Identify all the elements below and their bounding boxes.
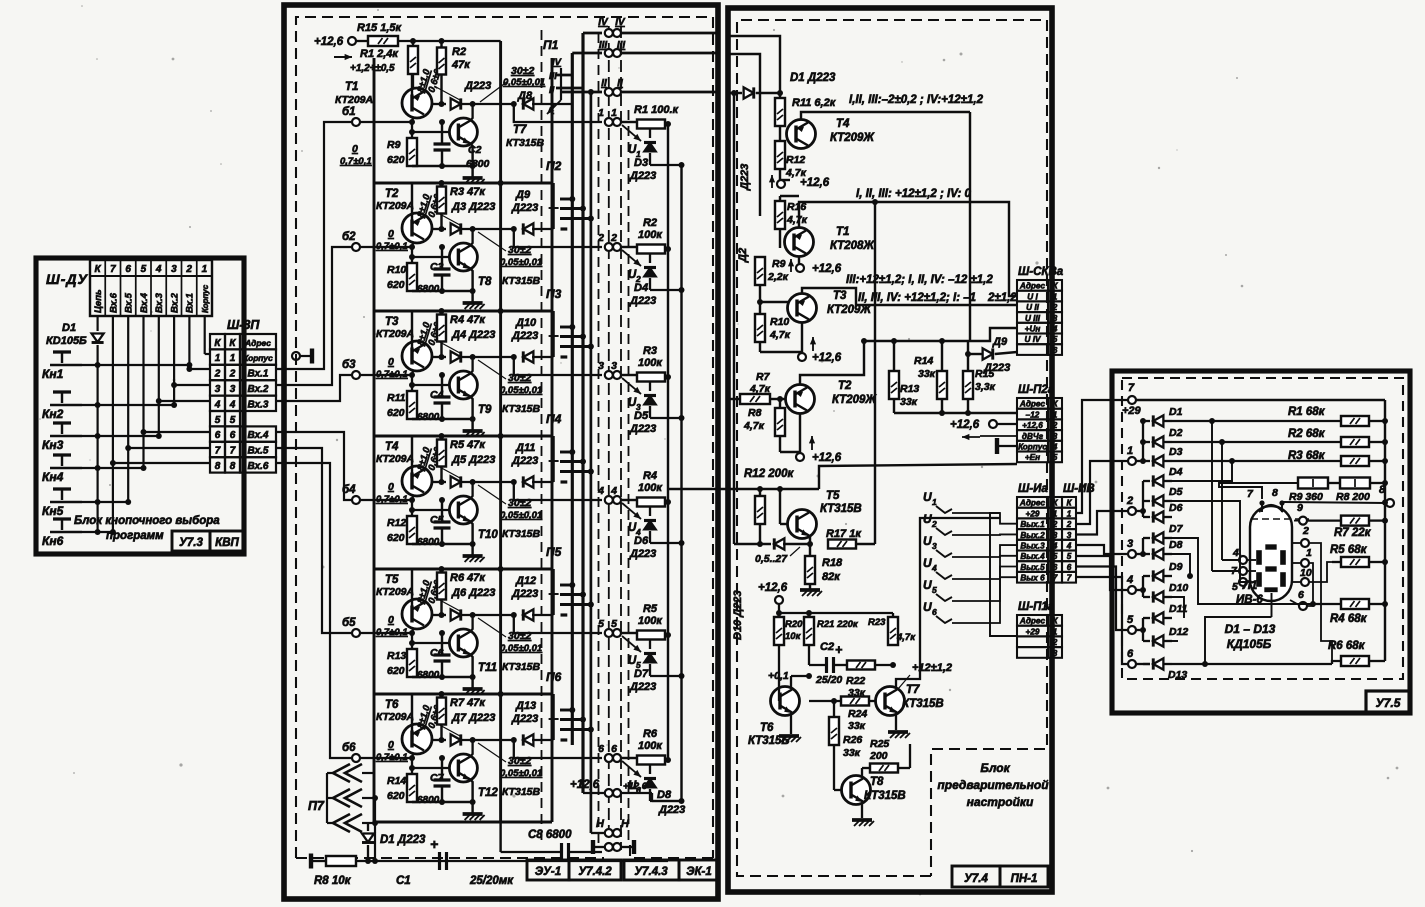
svg-text:R4 47к: R4 47к xyxy=(450,314,486,326)
capacitor C4 6800 xyxy=(441,375,443,397)
push-button Kn3 xyxy=(50,435,82,437)
svg-text:D12: D12 xyxy=(1169,626,1188,638)
wire b6 row xyxy=(360,757,412,759)
EU-1 border bus xyxy=(608,26,610,850)
svg-text:П2: П2 xyxy=(546,159,562,173)
leader line trim xyxy=(478,232,506,251)
svg-text:10к: 10к xyxy=(785,631,802,642)
svg-text:1: 1 xyxy=(1127,445,1133,457)
wiper arrow to U2 xyxy=(622,250,641,266)
wire Вых.1 to terminal 1 xyxy=(1075,461,1128,524)
resistor R3 47к xyxy=(437,187,446,214)
svg-text:Д223: Д223 xyxy=(464,80,491,92)
diode D13 КД105Б xyxy=(1143,663,1150,665)
wire Т8 emitter xyxy=(470,268,473,303)
resistor R8 4,7к xyxy=(775,408,785,436)
wire net Корпус xyxy=(204,316,206,354)
svg-text:620: 620 xyxy=(387,790,405,802)
svg-text:30±2: 30±2 xyxy=(508,372,531,384)
transistor Т2 КТ209А xyxy=(402,213,432,243)
svg-text:П1: П1 xyxy=(543,38,559,52)
mesh wire D8 row xyxy=(1172,554,1190,576)
svg-text:б2: б2 xyxy=(342,231,356,243)
svg-text:Адрес: Адрес xyxy=(244,338,271,348)
svg-text:С8 6800: С8 6800 xyxy=(528,829,572,841)
svg-text:0: 0 xyxy=(388,614,394,626)
svg-text:Вх.1: Вх.1 xyxy=(185,293,196,313)
svg-text:3: 3 xyxy=(1053,531,1058,540)
svg-text:6: 6 xyxy=(230,430,236,441)
transistor Т4 КТ209А xyxy=(402,466,432,496)
coil end tick П2 xyxy=(561,227,568,230)
ground channel 6 xyxy=(463,812,483,816)
wire varicap to bus B xyxy=(650,417,682,419)
svg-text:R12: R12 xyxy=(387,517,406,529)
svg-text:D10 Д223: D10 Д223 xyxy=(732,590,744,640)
transistor T6 КТ315Б xyxy=(771,687,800,716)
svg-text:КТ209А: КТ209А xyxy=(376,586,414,598)
svg-text:U II: U II xyxy=(1026,303,1039,312)
wire net Вх.2 xyxy=(173,316,175,405)
label box U7.4.3 xyxy=(624,860,679,880)
diode D7 КД105Б xyxy=(1143,537,1150,539)
label box U7.4 xyxy=(952,866,1000,887)
wire Vx.5 to b5 xyxy=(276,448,352,633)
svg-text:Корпус: Корпус xyxy=(1018,443,1047,452)
svg-text:Вых.3: Вых.3 xyxy=(1020,542,1045,551)
wire Т1 base up xyxy=(411,74,413,95)
wire R9 left to pin7 xyxy=(1219,483,1298,499)
wire П7 tap bottom xyxy=(362,822,375,824)
coil end tick П6 xyxy=(561,738,568,741)
svg-text:R13: R13 xyxy=(387,650,406,662)
svg-text:1: 1 xyxy=(1053,509,1058,518)
channel 5 top rail wire xyxy=(374,568,552,571)
wire emitter node xyxy=(462,356,516,358)
svg-text:33к: 33к xyxy=(843,747,861,759)
wire Т7 collector xyxy=(470,104,473,121)
resistor R7 47к xyxy=(437,698,446,725)
svg-text:Д223: Д223 xyxy=(629,295,656,307)
terminal b5 xyxy=(352,629,360,637)
svg-text:6800: 6800 xyxy=(417,537,440,548)
block U7.4.2 outer border xyxy=(284,5,718,899)
mesh vertical from R2 line xyxy=(1221,442,1223,560)
svg-text:2: 2 xyxy=(185,264,192,275)
resistor R26 33к xyxy=(829,717,839,745)
label box EK-1 xyxy=(679,860,719,880)
svg-text:7: 7 xyxy=(1128,382,1135,394)
svg-text:КТ315В: КТ315В xyxy=(502,528,541,540)
wire R1 to bus A xyxy=(665,123,668,125)
leader line gain xyxy=(436,598,460,611)
svg-text:0,05±0,01: 0,05±0,01 xyxy=(500,257,542,268)
block U7.4 PN-1 dashed border xyxy=(737,20,1047,876)
svg-text:4: 4 xyxy=(1232,547,1239,559)
svg-text:4,7к: 4,7к xyxy=(743,420,765,432)
svg-text:+12±1,2: +12±1,2 xyxy=(912,662,952,674)
svg-text:КТ315В: КТ315В xyxy=(820,503,862,515)
wire Вых.4 to terminal 4 xyxy=(1075,556,1128,590)
svg-text:Д7 Д223: Д7 Д223 xyxy=(451,712,495,724)
П7 contact arrow 3 xyxy=(333,814,350,832)
svg-text:Д223: Д223 xyxy=(511,713,538,725)
wire +29 rail xyxy=(1136,399,1385,401)
coil tap 1 П4 xyxy=(560,451,572,454)
leader line trim xyxy=(478,618,506,637)
svg-text:6800: 6800 xyxy=(417,670,440,681)
svg-text:Д223: Д223 xyxy=(511,455,538,467)
svg-text:КТ209А: КТ209А xyxy=(376,711,414,723)
wire Вых.3 to terminal 3 xyxy=(1075,545,1128,554)
terminal +12,6 T3 xyxy=(801,323,803,353)
svg-text:3: 3 xyxy=(1127,538,1133,550)
svg-text:Т1: Т1 xyxy=(345,81,358,93)
coil tap 3 П2 xyxy=(560,217,591,220)
diode Д12 Д223 xyxy=(523,609,533,620)
svg-text:R11 6,2к: R11 6,2к xyxy=(792,97,837,109)
svg-text:Т8: Т8 xyxy=(870,776,884,788)
tube cathode bar xyxy=(1265,588,1277,592)
svg-text:4,7к: 4,7к xyxy=(769,329,791,341)
svg-text:R22: R22 xyxy=(846,675,865,687)
svg-text:Вх.5: Вх.5 xyxy=(124,292,135,313)
svg-text:I,II, III:–2±0,2 ; IV:+12±1,2: I,II, III:–2±0,2 ; IV:+12±1,2 xyxy=(849,94,984,106)
svg-text:6: 6 xyxy=(598,743,604,755)
wire U6 to Вых row xyxy=(952,577,1017,623)
mesh wire D9 D10 xyxy=(1172,597,1184,618)
svg-text:Д223: Д223 xyxy=(983,362,1010,374)
svg-text:R8 200: R8 200 xyxy=(1336,491,1370,503)
svg-text:Т1: Т1 xyxy=(836,226,849,238)
block U7.4.2 dashed border xyxy=(296,17,712,858)
wire Vx.6 to b6 xyxy=(276,463,352,758)
svg-text:R12 200к: R12 200к xyxy=(744,468,794,480)
wires R13 R14 R15 tops xyxy=(893,341,895,371)
wire +Ен row xyxy=(819,464,1017,489)
transistor Т12 КТ315В xyxy=(449,754,477,782)
svg-text:30±2: 30±2 xyxy=(508,497,531,509)
varicap D5 Д223 xyxy=(649,382,651,391)
svg-text:Д9: Д9 xyxy=(515,189,531,201)
wire net Вх.4 xyxy=(142,316,144,468)
resistor R13 33к xyxy=(889,371,899,399)
svg-text:5: 5 xyxy=(1053,453,1058,462)
svg-text:R2: R2 xyxy=(452,46,466,58)
svg-text:100к: 100к xyxy=(638,357,663,369)
svg-text:5: 5 xyxy=(1232,581,1238,593)
transistor Т5 КТ209А xyxy=(402,599,432,629)
svg-text:620: 620 xyxy=(387,532,405,544)
wire button Kn5 row xyxy=(82,501,128,503)
diode column link D11-D12 xyxy=(1142,618,1144,641)
svg-text:Т4: Т4 xyxy=(385,441,399,453)
svg-text:R2: R2 xyxy=(643,217,657,229)
block U7.3 KVP outline xyxy=(36,258,244,554)
svg-text:Д223: Д223 xyxy=(739,164,751,191)
svg-text:С1: С1 xyxy=(396,875,411,887)
svg-text:1: 1 xyxy=(1053,410,1058,419)
svg-text:4: 4 xyxy=(1052,542,1058,551)
transistor T2 КТ209Ж xyxy=(786,385,815,414)
svg-text:б6: б6 xyxy=(342,742,356,754)
svg-text:4: 4 xyxy=(597,485,604,497)
svg-text:КТ209А: КТ209А xyxy=(376,328,414,340)
transistor Т10 КТ315В xyxy=(449,496,477,524)
svg-text:3: 3 xyxy=(230,384,236,395)
svg-text:R6: R6 xyxy=(643,728,658,740)
svg-text:9: 9 xyxy=(1297,502,1303,514)
wire +12,6 to varicap bus xyxy=(651,793,653,801)
wire T6 base xyxy=(778,645,780,701)
terminal b3 xyxy=(352,371,360,379)
svg-text:D4: D4 xyxy=(634,282,648,294)
wire bottom rail channel xyxy=(412,676,473,678)
svg-text:6: 6 xyxy=(215,430,221,441)
coil tap 2 П4 xyxy=(560,460,583,463)
wire R4 to bus A xyxy=(665,501,668,503)
diode column link D4-D6 xyxy=(1142,481,1144,517)
wire Т7 base lead xyxy=(412,131,449,133)
svg-text:D3: D3 xyxy=(1169,446,1183,458)
svg-text:R15 1,5к: R15 1,5к xyxy=(357,22,403,34)
wire terminal 8 to tube pin 8 xyxy=(1284,502,1386,503)
svg-text:У7.4.2: У7.4.2 xyxy=(578,866,612,878)
wire bottom rail channel xyxy=(412,165,473,167)
svg-text:Д223: Д223 xyxy=(629,681,656,693)
svg-text:Д223: Д223 xyxy=(511,330,538,342)
svg-text:5: 5 xyxy=(598,618,604,630)
leader line trim xyxy=(478,743,506,762)
svg-text:D6: D6 xyxy=(634,535,649,547)
wire button Kn3 row xyxy=(82,435,159,437)
resistor R9 620 xyxy=(407,138,417,166)
svg-text:R5 68к: R5 68к xyxy=(1330,544,1368,556)
П7 contact arrow 1 xyxy=(333,764,350,782)
resistor R24 33к xyxy=(841,697,869,706)
svg-text:Д3 Д223: Д3 Д223 xyxy=(451,201,495,213)
svg-text:R24: R24 xyxy=(848,708,867,720)
wire Т10 emitter xyxy=(470,521,473,556)
wire net Вх.5 xyxy=(127,316,129,502)
wire pin 10 xyxy=(1309,562,1332,582)
coil tap 1 П2 xyxy=(560,198,572,201)
svg-text:R17 1к: R17 1к xyxy=(826,528,862,540)
svg-text:6800: 6800 xyxy=(417,284,440,295)
svg-text:Вых.4: Вых.4 xyxy=(1020,552,1045,561)
coil tap 2 П3 xyxy=(560,335,583,338)
svg-text:0: 0 xyxy=(388,739,394,751)
wire Т2 base up xyxy=(411,183,413,220)
dashed border EK-1 right xyxy=(712,17,714,858)
leader line trim ch1 xyxy=(480,81,508,102)
terminal b4 xyxy=(352,496,360,504)
wiper arrow to U4 xyxy=(622,503,641,519)
wire varicap to bus B xyxy=(650,675,682,677)
svg-text:Т6: Т6 xyxy=(760,722,774,734)
svg-text:2: 2 xyxy=(1126,495,1133,507)
svg-text:+12,6: +12,6 xyxy=(570,779,600,791)
wire R2 to bus A xyxy=(665,248,668,250)
capacitor C5 6800 xyxy=(441,500,443,522)
leader line gain xyxy=(436,212,460,225)
svg-text:D1 Д223: D1 Д223 xyxy=(790,72,836,84)
capacitor C6 6800 xyxy=(441,633,443,655)
wire T1 rail drop xyxy=(874,202,876,544)
svg-text:R1 100.к: R1 100.к xyxy=(634,104,680,116)
resistor R8 10к xyxy=(309,854,313,869)
varicap D3 Д223 xyxy=(649,129,651,138)
ground channel 3 xyxy=(463,429,483,433)
transistor T4 КТ209Ж xyxy=(787,120,816,149)
svg-text:КТ209А: КТ209А xyxy=(335,94,373,106)
vertical bus Д223 column xyxy=(733,93,735,544)
svg-text:Вх.3: Вх.3 xyxy=(248,399,269,410)
terminals chassis pair xyxy=(605,843,613,851)
wire T1 base xyxy=(779,229,781,248)
label box U7.4.2 xyxy=(569,860,621,880)
svg-text:D6: D6 xyxy=(1169,502,1183,514)
svg-text:КТ315В: КТ315В xyxy=(502,275,541,287)
svg-text:3: 3 xyxy=(215,384,221,395)
wire П7 to bus xyxy=(362,797,375,799)
svg-text:Ш-П1а: Ш-П1а xyxy=(1018,601,1055,613)
svg-text:R4 68к: R4 68к xyxy=(1330,613,1368,625)
svg-text:К: К xyxy=(214,338,221,349)
svg-text:II: II xyxy=(549,85,555,96)
svg-text:R21 220к: R21 220к xyxy=(817,619,859,630)
wire Т6 base up xyxy=(411,694,413,731)
label box KVP xyxy=(210,531,244,551)
wire emitter node xyxy=(462,481,516,483)
П7 contact arrow 2 xyxy=(333,789,350,807)
diode D11 КД105Б xyxy=(1143,617,1150,619)
wire bottom rail channel xyxy=(412,801,473,803)
mesh wire D11 D12 xyxy=(1172,640,1178,642)
svg-text:Т7: Т7 xyxy=(513,124,527,136)
push-button Kn6 xyxy=(50,531,82,533)
svg-text:7: 7 xyxy=(1053,574,1058,583)
svg-text:6800: 6800 xyxy=(417,795,440,806)
resistor R21 220к xyxy=(804,617,814,645)
coil end tick П3 xyxy=(561,355,568,358)
channel column right border xyxy=(551,58,554,822)
wire varicap to bus B xyxy=(650,289,682,291)
resistor R22 33к xyxy=(847,661,875,670)
svg-text:R3: R3 xyxy=(643,345,657,357)
svg-text:620: 620 xyxy=(387,407,405,419)
svg-text:Кн1: Кн1 xyxy=(42,367,64,381)
svg-text:D1 – D13: D1 – D13 xyxy=(1225,622,1276,636)
resistor R2 47к ch1 top lead xyxy=(440,41,442,48)
svg-text:ЭК-1: ЭК-1 xyxy=(686,866,712,878)
coil tap 3 П3 xyxy=(560,345,591,348)
svg-text:0,5..27: 0,5..27 xyxy=(755,553,788,565)
wire collector drop xyxy=(412,629,414,633)
svg-text:Д12: Д12 xyxy=(515,575,536,587)
svg-text:U: U xyxy=(923,490,932,504)
svg-text:КТ209Ж: КТ209Ж xyxy=(830,132,875,144)
svg-text:Корпус: Корпус xyxy=(201,284,210,313)
svg-text:Адрес: Адрес xyxy=(1019,282,1046,291)
resistor R12 4,7к xyxy=(775,141,785,169)
svg-text:4: 4 xyxy=(155,264,162,275)
svg-text:100к: 100к xyxy=(638,740,663,752)
svg-text:2: 2 xyxy=(1066,520,1072,529)
svg-text:2±1,2: 2±1,2 xyxy=(987,292,1017,304)
ground channel 4 xyxy=(463,554,483,558)
coil end tick П5 xyxy=(561,613,568,616)
svg-text:D2: D2 xyxy=(1169,427,1183,439)
svg-text:2: 2 xyxy=(1052,303,1058,312)
svg-text:5: 5 xyxy=(1053,552,1058,561)
wire T3 collector rail xyxy=(802,288,1017,305)
wire net Вх.3 xyxy=(158,316,160,436)
svg-text:1: 1 xyxy=(932,497,937,507)
wire bus y341 xyxy=(864,340,970,342)
svg-text:2: 2 xyxy=(1302,525,1309,537)
svg-text:R5 47к: R5 47к xyxy=(450,439,486,451)
svg-text:620: 620 xyxy=(387,665,405,677)
svg-text:1: 1 xyxy=(230,353,236,364)
svg-text:Д13: Д13 xyxy=(515,700,536,712)
coil tap 3 П5 xyxy=(560,603,591,606)
transistor Т11 КТ315В xyxy=(449,629,477,657)
wire Т7 emitter xyxy=(470,143,473,178)
svg-text:Вых.5: Вых.5 xyxy=(1020,563,1045,572)
svg-text:C7: C7 xyxy=(430,772,445,784)
svg-text:30±2: 30±2 xyxy=(508,630,531,642)
wire Т10 collector xyxy=(470,482,473,499)
resistor R5 47к xyxy=(437,440,446,467)
svg-text:Вх.2: Вх.2 xyxy=(248,384,269,395)
svg-text:D4: D4 xyxy=(1169,466,1183,478)
resistor R14 620 xyxy=(407,774,417,802)
svg-text:П5: П5 xyxy=(546,545,562,559)
resistor R4 47к xyxy=(437,315,446,342)
svg-text:6: 6 xyxy=(1053,346,1058,355)
svg-text:33к: 33к xyxy=(900,396,918,408)
transistor Т6 КТ209А xyxy=(402,724,432,754)
svg-text:R5: R5 xyxy=(643,603,658,615)
svg-text:R13: R13 xyxy=(900,383,919,395)
resistor R10 620 xyxy=(407,263,417,291)
svg-text:+Uн: +Uн xyxy=(1025,325,1041,334)
svg-text:2: 2 xyxy=(1052,421,1058,430)
svg-text:б3: б3 xyxy=(342,359,356,371)
wire button Kn2 row xyxy=(82,404,174,406)
svg-text:Д11: Д11 xyxy=(515,442,535,454)
wire button Kn4 row xyxy=(82,467,144,469)
wire T8 emitter ground xyxy=(861,804,863,819)
wire emitter node xyxy=(462,228,516,230)
svg-text:Д10: Д10 xyxy=(515,317,537,329)
coil tap 2 П6 xyxy=(560,718,583,721)
svg-text:4: 4 xyxy=(1126,574,1133,586)
resistor R2 47к xyxy=(437,48,446,75)
diode Д13 Д223 xyxy=(523,734,533,745)
wire Т8 base lead xyxy=(412,256,449,258)
svg-text:U: U xyxy=(923,512,932,526)
wire collector drop xyxy=(412,371,414,375)
wire T5 base xyxy=(780,523,787,525)
svg-text:+29: +29 xyxy=(1026,627,1040,636)
svg-text:D1: D1 xyxy=(1169,406,1183,418)
svg-text:0: 0 xyxy=(388,228,394,240)
svg-text:Д223: Д223 xyxy=(629,170,656,182)
svg-text:7: 7 xyxy=(215,446,221,457)
wire pin 2 down xyxy=(1309,543,1332,664)
